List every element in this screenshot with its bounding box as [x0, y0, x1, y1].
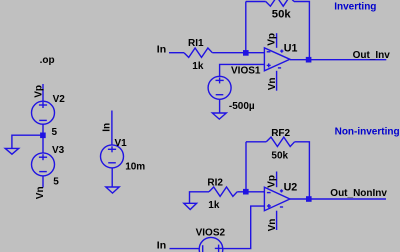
wire VIOS1 to U1 noninverting input	[220, 64, 265, 76]
wire U2 output	[290, 198, 386, 200]
svg-text:5: 5	[53, 177, 59, 188]
label U1 Vp	[266, 33, 277, 46]
ground G1	[5, 148, 19, 154]
node junction between V2 and V3	[40, 133, 46, 139]
wire feedback up from node	[245, 2, 247, 53]
ground G4	[184, 203, 197, 209]
wire V1 to ground	[111, 168, 113, 187]
wire RI2 to U2 inverting input	[237, 191, 264, 193]
svg-text:V3: V3	[52, 145, 65, 156]
wire VIOS1 to ground	[219, 100, 221, 114]
wire top feedback right	[294, 2, 309, 60]
label Vn flag	[35, 186, 46, 199]
wire junction to ground arm	[12, 135, 43, 148]
label U1	[284, 42, 298, 54]
label RF2 value 50k	[271, 150, 288, 161]
wire top feedback left	[246, 1, 266, 3]
label In flag bottom	[157, 239, 166, 251]
label U2 Vn	[267, 219, 278, 232]
svg-text:In: In	[157, 239, 166, 251]
node junction output U2	[306, 196, 312, 202]
svg-text:RF2: RF2	[271, 128, 290, 139]
label V2 value 5	[52, 127, 58, 138]
wire U2 Vp pin	[276, 172, 278, 188]
wire In stub above V1	[111, 111, 113, 146]
node junction output U1	[306, 57, 312, 63]
svg-text:Non-inverting: Non-inverting	[335, 126, 400, 137]
title Inverting	[334, 1, 376, 12]
svg-text:50k: 50k	[272, 9, 292, 21]
label Vp flag	[33, 85, 44, 98]
ground G3	[212, 113, 226, 119]
wire U1 Vp pin	[276, 33, 278, 48]
wire In to VIOS2	[170, 248, 199, 250]
wire RF2 left vertical	[245, 142, 247, 192]
label VIOS1	[231, 65, 261, 76]
wire VIOS2 to U2 noninverting input	[223, 206, 264, 249]
resistor RF1 50k	[266, 0, 294, 6]
label U2 Vp	[267, 175, 278, 188]
svg-text:50k: 50k	[271, 150, 288, 161]
svg-text:Inverting: Inverting	[334, 1, 376, 12]
resistor RI1	[184, 48, 212, 57]
svg-text:Out_Inv: Out_Inv	[353, 50, 391, 61]
op-amp U1	[264, 48, 290, 71]
label Out_Inv flag	[353, 50, 391, 61]
label Out_NonInv flag	[330, 188, 387, 199]
resistor RF2 50k	[266, 137, 294, 146]
svg-text:Vp: Vp	[267, 175, 278, 188]
svg-text:V2: V2	[53, 94, 66, 105]
directive .op	[40, 55, 55, 66]
svg-text:-500µ: -500µ	[229, 101, 255, 112]
svg-text:RI2: RI2	[207, 178, 223, 189]
svg-text:U1: U1	[284, 42, 298, 54]
node junction RI1/feedback	[243, 50, 249, 56]
svg-text:Vp: Vp	[33, 85, 44, 98]
ground G2	[106, 187, 119, 193]
resistor RI2	[209, 187, 237, 196]
label V1	[115, 138, 128, 149]
svg-text:In: In	[101, 123, 112, 132]
svg-text:1k: 1k	[208, 200, 220, 211]
svg-text:Vp: Vp	[266, 33, 277, 46]
wire RF2 right to output	[295, 142, 310, 199]
svg-text:10m: 10m	[125, 162, 145, 173]
voltage source V3	[32, 153, 55, 176]
voltage source V2	[32, 101, 55, 124]
label RF2	[271, 128, 290, 139]
svg-text:Vn: Vn	[267, 78, 278, 91]
label VIOS2	[196, 228, 226, 239]
wire RF2 left horizontal	[246, 141, 266, 143]
wire U2 Vn pin	[276, 211, 278, 230]
label RI2	[207, 178, 223, 189]
label In flag V1	[101, 123, 112, 132]
svg-text:VIOS2: VIOS2	[196, 228, 226, 239]
wire RI1 to U1 inverting input	[212, 52, 264, 54]
svg-text:.op: .op	[40, 55, 55, 66]
label V3 value 5	[53, 177, 59, 188]
svg-text:U2: U2	[284, 182, 298, 194]
label RI1 value 1k	[192, 61, 204, 72]
wire U1 Vn pin	[276, 71, 278, 91]
label U2	[284, 182, 298, 194]
wire U1 output	[290, 59, 386, 61]
svg-text:Out_NonInv: Out_NonInv	[330, 188, 387, 199]
ground G4 riser	[190, 192, 210, 204]
label VIOS1 value	[229, 101, 255, 112]
svg-text:V1: V1	[115, 138, 128, 149]
voltage source V1	[101, 145, 124, 168]
voltage source VIOS2	[199, 237, 223, 252]
svg-text:5: 5	[52, 127, 58, 138]
svg-text:VIOS1: VIOS1	[231, 65, 261, 76]
svg-text:RI1: RI1	[188, 38, 204, 49]
wire V2 to V3	[42, 125, 44, 154]
wire Vp stub above V2	[42, 84, 44, 102]
op-amp U2	[264, 187, 290, 211]
wire In to RI1	[169, 52, 184, 54]
svg-text:In: In	[157, 43, 166, 55]
svg-text:1k: 1k	[192, 61, 204, 72]
label U1 Vn	[267, 78, 278, 91]
label RF1 value 50k	[272, 9, 292, 21]
label In flag top	[157, 43, 166, 55]
node junction RI2/feedback	[243, 189, 249, 195]
label RI1	[188, 38, 204, 49]
label V3	[52, 145, 65, 156]
title Non-inverting	[335, 126, 400, 137]
wire Vn stub below V3	[42, 176, 44, 188]
label V2	[53, 94, 66, 105]
svg-text:Vn: Vn	[35, 186, 46, 199]
svg-text:Vn: Vn	[267, 219, 278, 232]
label RI2 value 1k	[208, 200, 220, 211]
voltage source VIOS1	[208, 76, 231, 99]
label V1 value 10m	[125, 162, 145, 173]
